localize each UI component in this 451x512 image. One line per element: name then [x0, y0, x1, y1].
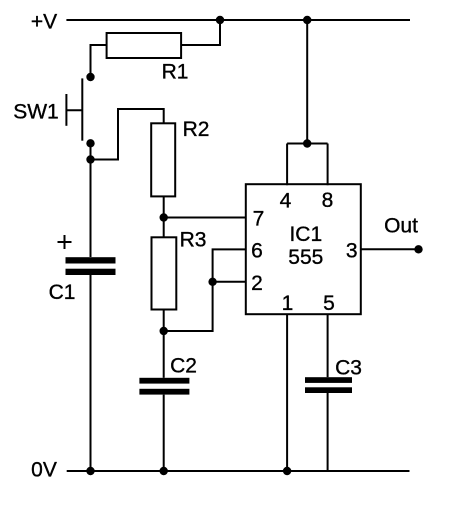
switch SW1 actuator: [66, 109, 82, 111]
wire pin 4 to power bridge: [286, 144, 288, 186]
svg-text:0V: 0V: [31, 459, 57, 482]
R1 value label: [162, 61, 189, 84]
capacitor C3: [305, 377, 352, 383]
svg-text:+V: +V: [31, 11, 57, 34]
switch SW1 upper contact node: [86, 73, 94, 81]
pin 7 label: [253, 208, 265, 231]
svg-text:2: 2: [251, 272, 263, 295]
switch SW1 actuator T-bar: [65, 94, 67, 126]
svg-text:7: 7: [253, 208, 265, 231]
wire R3 bottom to node: [163, 310, 165, 332]
op-amp U1: IC1 555 timer box: [246, 184, 361, 314]
wire node up to pin 6: [164, 249, 247, 331]
node junction C2 on 0V rail: [160, 467, 168, 475]
capacitor C2: [139, 378, 189, 384]
node junction pin2 branch: [208, 278, 216, 286]
wire C1 bottom to 0V rail: [90, 275, 92, 471]
R2 value label: [183, 118, 210, 141]
wire node to R3 top: [163, 218, 165, 238]
C2 value label: [170, 355, 197, 378]
pin 5 label: [323, 292, 335, 315]
svg-text:SW1: SW1: [13, 101, 59, 124]
wire pin 3 to output: [360, 248, 419, 250]
node junction on +V rail at IC supply: [303, 16, 311, 24]
wire 0V rail: [67, 470, 410, 472]
node junction C1 on 0V rail: [86, 467, 94, 475]
svg-text:IC1: IC1: [289, 223, 322, 246]
svg-text:555: 555: [288, 246, 323, 269]
svg-text:C1: C1: [49, 281, 76, 304]
wire junction to R2 top: [91, 109, 164, 160]
svg-text:Out: Out: [384, 215, 418, 238]
resistor R3: [152, 237, 177, 309]
node junction pin1 on 0V rail: [283, 467, 291, 475]
wire power bridge horizontal: [287, 143, 328, 145]
svg-text:R1: R1: [162, 61, 189, 84]
svg-text:R2: R2: [183, 118, 210, 141]
switch SW1 label: [13, 101, 59, 124]
wire R1 left to switch top: [91, 45, 107, 77]
pin 1 label: [282, 292, 294, 315]
capacitor C1 polarity plus sign: [58, 241, 72, 243]
svg-text:5: 5: [323, 292, 335, 315]
switch SW1 contact bar: [81, 78, 83, 140]
svg-text:C2: C2: [170, 355, 197, 378]
net Out label: [384, 215, 418, 238]
pin 3 label: [346, 239, 358, 262]
svg-text:4: 4: [280, 190, 292, 213]
R3 value label: [180, 229, 207, 252]
wire C1 top from junction: [90, 160, 92, 258]
IC1 label: [289, 223, 322, 246]
pin 6 label: [251, 240, 263, 263]
svg-text:1: 1: [282, 292, 294, 315]
net +V label: [31, 11, 57, 34]
wire bridge to +V rail: [306, 20, 308, 144]
wire switch lower contact to junction: [90, 143, 92, 159]
resistor R2: [151, 123, 175, 196]
pin 2 label: [251, 272, 263, 295]
resistor R1: [107, 33, 182, 58]
wire node to pin 7: [164, 217, 247, 219]
net 0V label: [31, 459, 57, 482]
svg-text:R3: R3: [180, 229, 207, 252]
C1 value label: [49, 281, 76, 304]
wire pin 8 to power bridge: [327, 144, 329, 186]
wire R1 right to +V rail: [181, 19, 220, 45]
svg-text:C3: C3: [335, 357, 362, 380]
node junction R2/R3/pin7: [160, 213, 168, 221]
pin 8 label: [322, 189, 334, 212]
switch SW1 lower contact node: [86, 139, 94, 147]
wire node to C2 top: [163, 331, 165, 378]
wire pin 1 to 0V rail: [286, 314, 288, 472]
wire C2 bottom to 0V rail: [163, 395, 165, 471]
555 value label: [288, 246, 323, 269]
node junction R3/C2: [160, 327, 168, 335]
wire node to pin 2: [213, 281, 247, 283]
node junction on power bridge: [303, 139, 311, 147]
node junction below switch: [86, 155, 94, 163]
wire pin 5 to C3 top: [327, 314, 329, 378]
wire C3 bottom to 0V rail: [327, 393, 329, 471]
pin 4 label: [280, 190, 292, 213]
wire +V rail: [66, 19, 410, 21]
svg-text:6: 6: [251, 240, 263, 263]
svg-text:8: 8: [322, 189, 334, 212]
C3 value label: [335, 357, 362, 380]
node output terminal: [414, 245, 422, 253]
svg-text:3: 3: [346, 239, 358, 262]
capacitor C1: [66, 257, 116, 263]
node junction on +V rail at R1: [216, 16, 224, 24]
wire R2 bottom to node: [163, 196, 165, 217]
